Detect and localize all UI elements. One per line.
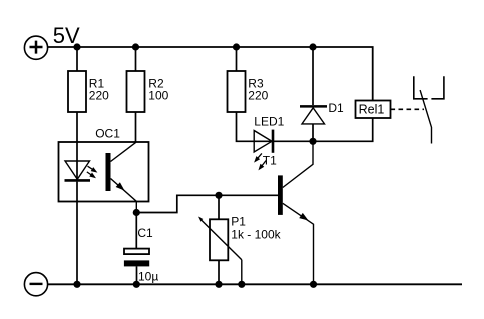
svg-text:1k - 100k: 1k - 100k <box>231 228 281 242</box>
wire P1 bottom <box>218 260 220 284</box>
node P1 wiper top <box>215 192 222 199</box>
svg-text:D1: D1 <box>328 101 344 115</box>
svg-text:220: 220 <box>89 89 109 103</box>
supply + terminal <box>24 36 47 59</box>
OC1 internal LED <box>65 161 91 180</box>
relay contact lever <box>420 90 431 143</box>
wire D1 top <box>312 47 314 105</box>
wire P1 top <box>218 195 220 219</box>
wire C1 bottom <box>136 266 138 284</box>
diode D1 <box>300 106 327 141</box>
node bottom OC1/R1 <box>73 281 80 288</box>
potentiometer P1 <box>210 219 228 260</box>
wire bottom rail <box>48 283 462 285</box>
svg-text:T1: T1 <box>263 153 277 167</box>
resistor R3 <box>228 71 246 112</box>
svg-text:OC1: OC1 <box>95 127 120 141</box>
wire top rail <box>48 47 373 101</box>
svg-text:Rel1: Rel1 <box>359 103 385 117</box>
diode LED1 <box>254 130 273 153</box>
OC1 light arrow 1 <box>88 166 98 172</box>
relay contact left terminal <box>414 76 428 99</box>
supply - terminal <box>24 273 47 296</box>
dashed mechanical link <box>391 108 425 110</box>
node top R1 <box>73 43 80 50</box>
node LED/D1/T1/Rel1 <box>309 138 316 145</box>
resistor R2 <box>127 71 145 112</box>
wire R2 bottom to OC1 <box>135 112 137 143</box>
P1 wiper arrow <box>198 217 242 285</box>
wire LED1 cathode to node <box>274 140 313 142</box>
svg-text:220: 220 <box>248 89 268 103</box>
relay contact right terminal <box>431 76 444 99</box>
node top D1 <box>309 43 316 50</box>
node bottom P1 <box>215 281 222 288</box>
OC1 light arrow 2 <box>87 172 96 178</box>
capacitor C1 <box>124 249 149 267</box>
OC1 phototransistor <box>106 142 137 212</box>
LED1 emission arrow 2 <box>258 161 266 171</box>
transistor T1 <box>278 141 314 284</box>
node top R3 <box>233 43 240 50</box>
svg-text:P1: P1 <box>231 215 246 229</box>
svg-text:C1: C1 <box>137 226 153 240</box>
wire Rel1 bottom <box>313 118 373 141</box>
svg-text:100: 100 <box>148 89 168 103</box>
wire C1 top <box>135 213 137 249</box>
wire emitter node to base net <box>136 195 278 212</box>
node OC1 emitter / C1 <box>133 209 140 216</box>
node top R2 <box>132 43 139 50</box>
wire R1 bottom to OC1 LED <box>76 112 78 180</box>
node bottom P1 wiper <box>238 281 245 288</box>
wire R1 top <box>76 47 78 71</box>
wire R2 top <box>135 47 137 71</box>
wire R3 bottom to LED1 <box>237 112 274 141</box>
wire R3 top <box>236 47 238 71</box>
wire OC1 LED cathode down <box>76 182 78 285</box>
node bottom C1 <box>133 281 140 288</box>
relay coil Rel1 <box>356 101 391 119</box>
node bottom T1 emitter <box>310 281 317 288</box>
LED1 emission arrow 1 <box>254 153 262 162</box>
optocoupler OC1 box <box>59 142 149 202</box>
svg-text:10µ: 10µ <box>138 269 158 283</box>
svg-text:LED1: LED1 <box>254 114 284 128</box>
resistor R1 <box>68 71 86 112</box>
